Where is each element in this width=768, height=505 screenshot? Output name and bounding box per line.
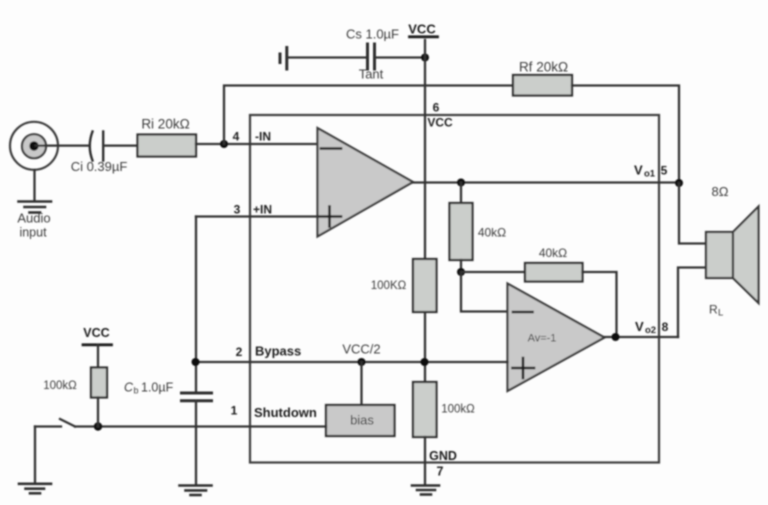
- capacitor Cb: [182, 393, 212, 401]
- resistor Rf: [513, 75, 572, 96]
- resistor 40kΩ (vertical): [450, 203, 473, 260]
- resistor 100kΩ (divider bottom): [413, 382, 437, 437]
- op-amp U1A: [318, 128, 414, 237]
- node bypass/divider: [421, 358, 429, 366]
- svg-text:Av=-1: Av=-1: [528, 333, 557, 345]
- svg-text:+IN: +IN: [253, 203, 272, 217]
- label 100kΩ (pullup): [43, 380, 77, 392]
- svg-text:Ri 20kΩ: Ri 20kΩ: [141, 117, 189, 132]
- wire bypass line: [196, 361, 508, 363]
- wire 100k pullup to shutdown node: [97, 398, 99, 427]
- wire Ci to Ri: [104, 144, 138, 146]
- wire feedback riser: [224, 86, 513, 145]
- wire VCC to 100k pullup: [97, 345, 99, 368]
- svg-text:input: input: [19, 226, 47, 240]
- wire ground to Cs: [288, 56, 366, 58]
- wire amp1 output Vo1: [413, 181, 679, 183]
- label 100kΩ (divider bottom): [441, 404, 475, 416]
- svg-text:5: 5: [661, 164, 668, 178]
- wire Cs to VCC node: [376, 56, 425, 58]
- wire speaker upper: [679, 183, 706, 244]
- wire divider bottom to ground: [424, 437, 426, 484]
- svg-text:V: V: [634, 163, 643, 178]
- node Vo1 / Rf: [675, 179, 683, 187]
- power VCC (top): [408, 22, 437, 37]
- svg-text:b: b: [134, 386, 139, 396]
- svg-text:Audio: Audio: [17, 211, 50, 226]
- label 40kΩ (feedback): [539, 246, 567, 260]
- wire node to 40k horizontal: [461, 271, 525, 273]
- node bypass/bias: [358, 358, 366, 366]
- wire bypass riser (pin3 to Cb): [195, 217, 197, 393]
- node 40k bottom junction: [457, 268, 465, 276]
- svg-text:VCC/2: VCC/2: [342, 342, 380, 357]
- svg-text:Cs 1.0µF: Cs 1.0µF: [346, 27, 399, 42]
- label 40kΩ: [478, 226, 506, 240]
- label GND pin 7: [429, 449, 457, 479]
- pin 1 Shutdown: [231, 404, 317, 421]
- svg-text:2: 2: [236, 345, 243, 359]
- label 100KΩ: [371, 280, 407, 292]
- svg-text:V: V: [635, 319, 644, 334]
- label Rf 20kΩ: [519, 60, 568, 75]
- resistor 100KΩ (divider top): [413, 259, 437, 312]
- wire 40k top: [460, 183, 462, 204]
- wire Rf to Vo1 node: [572, 86, 679, 184]
- ground (Cb): [180, 486, 212, 496]
- svg-text:Tant: Tant: [359, 67, 384, 82]
- resistor 40kΩ (feedback of U1B): [525, 263, 583, 282]
- wire speaker lower: [678, 268, 706, 338]
- wire node to amp2 -IN: [461, 272, 508, 312]
- wire bias to bypass: [360, 362, 362, 405]
- wire VCC divider mid: [424, 312, 426, 382]
- node amp2 output: [612, 333, 620, 341]
- svg-text:7: 7: [437, 465, 444, 479]
- svg-text:Ci 0.39µF: Ci 0.39µF: [71, 159, 128, 174]
- wire 40k to amp2 output: [583, 272, 617, 337]
- label Audio input: [17, 211, 50, 240]
- svg-text:L: L: [718, 308, 723, 319]
- label Vo1 pin 5: [634, 163, 668, 180]
- label RL: [709, 303, 723, 319]
- ground (switch): [19, 484, 51, 494]
- capacitor Ci: [90, 132, 103, 161]
- svg-text:Bypass: Bypass: [255, 344, 301, 359]
- label 8Ω: [712, 184, 729, 199]
- pin 2 Bypass: [236, 344, 302, 360]
- label Tant: [359, 67, 384, 82]
- ground (GND pin 7): [412, 486, 439, 495]
- wire +IN to op-amp U1A: [196, 215, 317, 217]
- svg-text:R: R: [709, 303, 718, 317]
- svg-text:-IN: -IN: [255, 130, 271, 144]
- label Ci 0.39µF: [71, 159, 128, 174]
- wire shutdown line: [75, 425, 326, 427]
- svg-text:100kΩ: 100kΩ: [441, 404, 475, 416]
- label Ri 20kΩ: [141, 117, 189, 132]
- svg-text:1: 1: [231, 404, 238, 418]
- node Cs/VCC junction: [421, 54, 429, 62]
- svg-text:VCC: VCC: [408, 22, 436, 37]
- speaker RL: [706, 207, 759, 304]
- audio input connector J1: [10, 122, 58, 170]
- wire 40k bottom: [460, 260, 462, 272]
- svg-text:VCC: VCC: [427, 116, 453, 130]
- ground (Cs, rotated): [280, 48, 287, 70]
- node input/-IN junction: [220, 140, 228, 148]
- svg-text:4: 4: [233, 130, 240, 144]
- svg-text:8Ω: 8Ω: [712, 184, 729, 199]
- svg-text:VCC: VCC: [83, 326, 109, 340]
- svg-text:100KΩ: 100KΩ: [371, 280, 407, 292]
- capacitor Cs: [368, 44, 375, 69]
- svg-text:Shutdown: Shutdown: [254, 405, 317, 420]
- wire connector to Ci: [36, 144, 89, 146]
- wire amp2 output Vo2: [605, 336, 679, 338]
- bias block: [326, 405, 395, 436]
- wire Ri to -IN of op-amp U1A: [196, 143, 317, 145]
- svg-text:40kΩ: 40kΩ: [478, 226, 506, 240]
- svg-text:C: C: [124, 381, 134, 395]
- svg-text:40kΩ: 40kΩ: [539, 246, 567, 260]
- svg-text:3: 3: [234, 203, 241, 217]
- label Vo2 pin 8: [635, 319, 669, 336]
- svg-text:Rf 20kΩ: Rf 20kΩ: [519, 60, 568, 75]
- svg-text:bias: bias: [350, 413, 374, 428]
- svg-text:1.0µF: 1.0µF: [141, 381, 174, 395]
- label VCC/2: [342, 342, 380, 357]
- wire connector to ground: [33, 170, 35, 200]
- svg-text:8: 8: [662, 320, 669, 334]
- resistor 100kΩ (pullup): [91, 368, 107, 398]
- resistor Ri: [138, 135, 197, 157]
- svg-text:6: 6: [433, 101, 440, 115]
- wire VCC line down to divider: [424, 40, 426, 259]
- label Cs 1.0µF: [346, 27, 399, 42]
- node shutdown/pullup: [94, 422, 102, 430]
- pin 3 +IN: [234, 203, 272, 217]
- svg-text:100kΩ: 100kΩ: [43, 380, 77, 392]
- label Cb 1.0µF: [124, 381, 174, 396]
- svg-text:GND: GND: [429, 449, 457, 463]
- svg-text:o2: o2: [645, 325, 656, 336]
- node bypass/Cb: [192, 358, 200, 366]
- switch S1: [35, 419, 75, 427]
- pin 6 VCC: [427, 101, 453, 130]
- IC U1 boundary: [250, 115, 659, 463]
- svg-text:o1: o1: [644, 169, 656, 180]
- ground (audio input): [19, 202, 52, 213]
- node amp1 out / 40k: [457, 179, 465, 187]
- wire switch to ground: [34, 427, 36, 483]
- pin 4 -IN: [233, 130, 271, 144]
- power VCC (left): [83, 326, 112, 345]
- wire Cb to ground: [195, 401, 197, 484]
- op-amp U1B Av=-1: [508, 284, 605, 392]
